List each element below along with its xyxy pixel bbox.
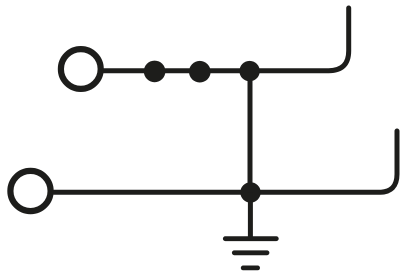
- bridge contact dot 1: [144, 61, 166, 83]
- wire (top horizontal from terminal to upper right bend): [104, 8, 349, 71]
- terminal circle X1 (top-left screw clamp): [61, 49, 101, 89]
- bridge contact dot 2: [189, 61, 211, 83]
- ground (earth symbol, bar 3): [243, 265, 257, 270]
- ground (earth symbol, bar 1): [225, 236, 276, 241]
- ground (earth symbol, bar 2): [234, 250, 267, 255]
- terminal circle X2 (bottom-left screw clamp): [10, 171, 50, 211]
- wire (vertical link between top and bottom rails): [248, 71, 253, 192]
- wire (bottom horizontal from terminal to lower right bend): [54, 131, 397, 192]
- junction node B (bottom rail): [240, 182, 260, 202]
- junction node A (top rail): [239, 61, 259, 81]
- wire (ground stem): [248, 192, 253, 238]
